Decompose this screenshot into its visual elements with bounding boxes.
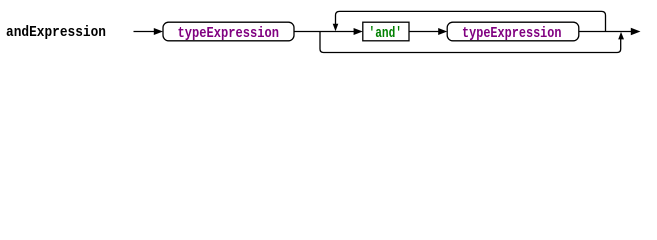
svg-text:andExpression: andExpression [6, 24, 106, 41]
svg-text:typeExpression: typeExpression [178, 25, 280, 42]
svg-text:typeExpression: typeExpression [462, 25, 562, 42]
svg-text:'and': 'and' [369, 25, 403, 42]
